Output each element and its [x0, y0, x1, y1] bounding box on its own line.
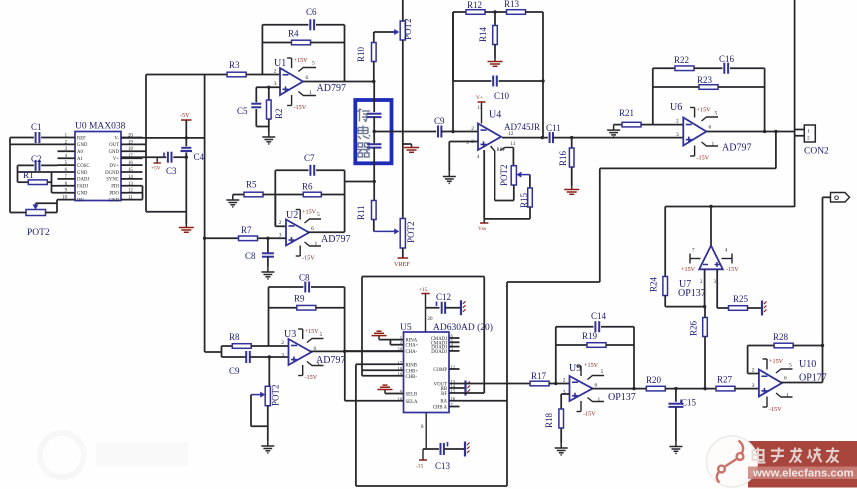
- op-amp U7 OP137 (pointing up): [699, 246, 723, 270]
- capacitor C13: [441, 443, 444, 455]
- wire R8 to U3 pin2: [251, 345, 289, 347]
- wire net: big box top: [362, 276, 484, 278]
- U4 output wire: [502, 137, 548, 139]
- -5V bus vertical: [185, 120, 187, 146]
- U7 pin3 stub down-right: [716, 269, 718, 308]
- ground below C4 (red): [179, 224, 194, 232]
- svg-text:PDI: PDI: [111, 185, 119, 190]
- U1 pin5 stub: [298, 68, 316, 72]
- CON2 pin wires: [795, 129, 805, 131]
- U1 output wire: [303, 81, 374, 83]
- svg-text:5: 5: [789, 363, 792, 369]
- resistor R21 + ground: [607, 125, 620, 137]
- wire U1 fb right vertical: [344, 25, 346, 82]
- svg-text:C8: C8: [299, 273, 310, 283]
- wire R28 fb: [747, 346, 749, 374]
- termination C13: [465, 442, 470, 457]
- svg-text:-15V: -15V: [583, 411, 596, 418]
- capacitor C10: [493, 76, 497, 87]
- wire R24 bottom to pin2 net: [665, 306, 704, 308]
- U10 +15V: [763, 359, 768, 370]
- wire R20 to R27: [665, 388, 717, 390]
- svg-text:POT2: POT2: [406, 221, 416, 243]
- svg-text:R12: R12: [467, 0, 482, 10]
- potentiometer POT2 (top right) wiper: [392, 29, 399, 35]
- svg-text:DADJ: DADJ: [77, 178, 89, 183]
- svg-text:R1: R1: [23, 170, 34, 180]
- U0 pin 12 PDO: [121, 192, 143, 194]
- capacitor C8 below pin3 + ground: [267, 238, 269, 252]
- svg-text:-15: -15: [416, 464, 423, 470]
- wire fb top left vertical: [452, 12, 454, 132]
- wire U3 fb left vertical: [268, 287, 270, 346]
- svg-text:-15V: -15V: [294, 104, 307, 111]
- IC U5 AD630AD: [404, 332, 450, 413]
- watermark www band: [748, 467, 857, 480]
- svg-text:6: 6: [306, 75, 309, 81]
- resistor R6: [303, 192, 321, 197]
- U3 -15V: [298, 365, 303, 376]
- resistor R22: [653, 67, 675, 69]
- svg-text:R13: R13: [504, 0, 520, 9]
- svg-text:+15V: +15V: [697, 107, 712, 114]
- U5 VOUT wire to R17: [449, 383, 530, 385]
- wire pot bottom loop: [513, 185, 515, 201]
- svg-text:COMP: COMP: [433, 368, 447, 373]
- CHA- wire from U3 out: [345, 350, 404, 352]
- U7 +15V (pin7): [690, 254, 701, 264]
- svg-text:13: 13: [128, 182, 133, 187]
- wire node to U2 pin2: [274, 195, 276, 227]
- svg-text:U4: U4: [489, 110, 501, 121]
- U6 pin1 stub: [702, 142, 719, 146]
- resistor R11: [372, 201, 377, 220]
- resistor R23: [653, 86, 699, 88]
- wire POT2 left: [10, 212, 26, 214]
- svg-text:R16: R16: [558, 150, 568, 166]
- svg-text:U5: U5: [400, 323, 412, 333]
- svg-text:GND: GND: [77, 171, 88, 176]
- C12 rail: [421, 293, 429, 295]
- sensor equivalent box (bold blue): [355, 100, 391, 163]
- RINB wire + vertical: [356, 363, 404, 365]
- U0 pin 6 GND: [58, 171, 76, 173]
- wire R8 input jog: [221, 346, 223, 357]
- svg-text:C10: C10: [494, 91, 510, 101]
- wire pin20 net: [121, 137, 205, 139]
- svg-text:COSC: COSC: [77, 164, 90, 169]
- wire C2 row: [18, 164, 34, 166]
- capacitor C6: [262, 24, 308, 26]
- svg-text:R15: R15: [519, 192, 529, 208]
- svg-text:CHB A: CHB A: [433, 406, 448, 411]
- capacitor C9 (U4 input): [438, 126, 441, 138]
- U0 pin 14 SYNC: [121, 178, 143, 180]
- svg-text:C5: C5: [237, 106, 248, 116]
- svg-text:R4: R4: [288, 29, 299, 39]
- capacitor C7: [275, 169, 308, 171]
- junction fb left: [451, 130, 454, 133]
- svg-text:U1: U1: [274, 58, 286, 69]
- capacitor C1: [36, 132, 40, 143]
- svg-text:5: 5: [601, 369, 604, 375]
- svg-text:REF: REF: [77, 136, 86, 141]
- U2 pin5 stub: [305, 219, 322, 223]
- U1 +15V: [287, 58, 292, 68]
- wire pin6 row: [18, 171, 58, 173]
- wire U6 fb right vertical: [764, 68, 766, 131]
- svg-text:+15V: +15V: [584, 362, 599, 369]
- U9 -15V: [577, 401, 582, 412]
- watermark circle logo: [707, 436, 758, 487]
- svg-text:AD630AD (20): AD630AD (20): [433, 322, 493, 333]
- svg-text:U0 MAX038: U0 MAX038: [75, 122, 126, 132]
- U3 +15V: [298, 329, 303, 339]
- U10 -15V: [763, 397, 768, 408]
- U0 pin 20 V-: [121, 137, 143, 139]
- svg-text:POT2: POT2: [403, 18, 413, 40]
- wire R10 top to POT2: [374, 31, 395, 33]
- wire pin10 jog: [36, 202, 58, 204]
- op-amp U9 OP137: [570, 376, 593, 401]
- U5 RA wire: [449, 400, 507, 402]
- CHB-: [362, 375, 404, 377]
- U7 -15V (pin4): [722, 254, 733, 264]
- U0 pin 13 PDI: [121, 185, 143, 187]
- svg-text:V-: V-: [114, 136, 119, 141]
- svg-text:-15V: -15V: [697, 155, 710, 162]
- bus to lower stages x=204.6: [204, 75, 206, 353]
- svg-text:11: 11: [128, 196, 133, 201]
- svg-text:-15V: -15V: [726, 266, 739, 273]
- capacitor C8 (U3 fb): [269, 286, 304, 288]
- op-amp U1 AD797: [280, 68, 303, 95]
- U0 pin 10 IIN: [58, 199, 76, 201]
- capacitor C11: [550, 132, 553, 143]
- U9 +15V: [577, 366, 582, 376]
- svg-text:12: 12: [508, 131, 514, 137]
- svg-text:14: 14: [128, 175, 133, 180]
- svg-text:C7: C7: [304, 153, 315, 163]
- SELB + inverted ground: [385, 393, 404, 395]
- resistor R16 + ground: [571, 138, 573, 148]
- ground U4 pin3: [443, 171, 456, 183]
- junction pin20/C4 bus: [185, 136, 188, 139]
- svg-text:16: 16: [128, 161, 133, 166]
- ground R16 (red): [564, 186, 579, 194]
- U9 fb right vertical: [633, 327, 635, 389]
- svg-text:C15: C15: [681, 398, 697, 408]
- svg-text:10: 10: [62, 196, 67, 201]
- svg-text:GND: GND: [77, 143, 88, 148]
- U0 pin 17 V+: [121, 157, 143, 159]
- ground C5/R2: [262, 132, 275, 144]
- svg-text:2: 2: [807, 136, 810, 142]
- svg-text:O: O: [834, 195, 839, 202]
- power +5V tick: [156, 157, 158, 163]
- svg-text:R21: R21: [619, 108, 634, 118]
- wire U3 fb right vertical: [344, 287, 346, 351]
- U0 pin 1 REF: [58, 137, 76, 139]
- U9 pin5 stub: [588, 376, 605, 380]
- svg-text:18: 18: [128, 147, 133, 152]
- resistor R28: [774, 343, 793, 348]
- svg-text:DV+: DV+: [109, 164, 119, 169]
- svg-text:3: 3: [281, 353, 284, 359]
- ground U3 pot: [261, 441, 274, 453]
- U2 pin1 stub: [305, 242, 322, 246]
- U6 -15V: [690, 146, 695, 157]
- svg-text:R23: R23: [697, 75, 713, 85]
- op-amp U2 AD797: [286, 220, 309, 246]
- junction R12/R13/R14: [493, 10, 496, 13]
- U0 pin 9 GND: [58, 192, 76, 194]
- wire fb right vertical: [542, 12, 544, 138]
- svg-text:Vss: Vss: [478, 226, 486, 232]
- resistor R9: [269, 307, 298, 309]
- svg-text:VREF: VREF: [394, 261, 410, 268]
- U3 output wire: [310, 350, 404, 352]
- svg-text:C1: C1: [31, 122, 42, 132]
- svg-text:1: 1: [786, 393, 789, 399]
- resistor R7: [205, 237, 239, 239]
- svg-text:3: 3: [752, 383, 755, 389]
- svg-text:2: 2: [274, 69, 277, 75]
- U5 top pin stub: [425, 308, 427, 332]
- U0 pin 5 COSC: [58, 164, 76, 166]
- resistor R20: [646, 386, 665, 391]
- svg-text:U2: U2: [286, 210, 298, 221]
- svg-text:R3: R3: [229, 60, 240, 70]
- resistor R4: [262, 42, 291, 44]
- svg-text:3: 3: [274, 81, 277, 87]
- ground below R14 (red): [488, 58, 503, 66]
- svg-text:+5V: +5V: [151, 166, 161, 172]
- svg-text:C13: C13: [435, 461, 451, 471]
- connector CON2: [804, 125, 815, 142]
- U0 pin 4 A1: [58, 157, 76, 159]
- svg-text:R18: R18: [544, 412, 554, 428]
- U0 pin 2 GND: [58, 143, 76, 145]
- SELA: [345, 400, 404, 402]
- watermark red box elecfans: [748, 441, 857, 488]
- wire fb bottom: [453, 80, 491, 82]
- svg-text:R7: R7: [241, 225, 252, 235]
- svg-text:C9: C9: [434, 116, 445, 126]
- resistor R12: [453, 11, 466, 13]
- svg-text:FADJ: FADJ: [77, 185, 88, 190]
- sensor internal capacitor bottom: [373, 117, 375, 143]
- wire U2 fb left vertical: [274, 170, 276, 226]
- svg-text:RF: RF: [441, 392, 447, 397]
- svg-text:2: 2: [752, 368, 755, 374]
- potentiometer POT2 (U4) body: [511, 166, 516, 185]
- U4 pin3 wire to ground: [449, 141, 478, 143]
- capacitor C9 (U3 input): [222, 356, 247, 358]
- U3 pin5 stub: [307, 339, 324, 343]
- wire R7 to pin3: [258, 237, 287, 239]
- potentiometer POT2 (U0) body: [26, 210, 46, 216]
- U2 -15V: [296, 246, 301, 257]
- U2 +15V: [296, 210, 301, 220]
- U7 pin2 stub down: [704, 269, 706, 306]
- svg-text:R22: R22: [674, 55, 689, 65]
- svg-text:1: 1: [317, 361, 320, 367]
- svg-text:-5V: -5V: [180, 112, 190, 119]
- resistor R17: [530, 381, 549, 386]
- resistor R27: [716, 386, 735, 391]
- wire POT2 right: [46, 212, 58, 214]
- U1 -15V: [287, 95, 292, 106]
- svg-text:5: 5: [320, 332, 323, 338]
- U10 pin2 wire: [748, 373, 759, 375]
- svg-text:SELB: SELB: [406, 393, 418, 398]
- resistor R13: [485, 11, 507, 13]
- svg-text:R25: R25: [733, 294, 749, 304]
- svg-text:OP137: OP137: [678, 288, 706, 299]
- svg-text:3: 3: [676, 132, 679, 138]
- svg-text:5: 5: [317, 212, 320, 218]
- U4 Vcc top: [481, 102, 483, 124]
- wire C1 to pin1: [10, 137, 34, 139]
- svg-text:2: 2: [676, 119, 679, 125]
- svg-text:C8: C8: [245, 251, 256, 261]
- right bus vertical (top): [794, 0, 796, 207]
- svg-text:R2: R2: [274, 108, 284, 119]
- wire C2-R1 vertical: [17, 165, 19, 182]
- wire bottom jog to -5V ground: [146, 211, 186, 213]
- svg-text:A0: A0: [77, 150, 83, 155]
- wire R6 right: [321, 194, 344, 196]
- svg-text:CON2: CON2: [804, 147, 829, 157]
- wire to pin9: [52, 192, 58, 194]
- potentiometer POT2 (top) body: [400, 21, 405, 40]
- svg-text:13: 13: [477, 106, 483, 111]
- sensor label 传感器 (vertical CJK approximated): [357, 109, 370, 122]
- svg-text:CHA+: CHA+: [406, 344, 419, 349]
- right bus x=402.8 top: [402, 0, 404, 21]
- svg-text:+15V: +15V: [305, 328, 320, 335]
- resistor R10: [373, 32, 375, 33]
- CHB+: [362, 369, 404, 371]
- svg-text:POT2: POT2: [27, 228, 50, 238]
- potentiometer POT2 (mid right) body: [400, 219, 405, 249]
- svg-text:C3: C3: [166, 166, 177, 176]
- svg-text:+15: +15: [419, 287, 428, 293]
- U9 fb box left vertical: [555, 327, 557, 384]
- svg-text:15: 15: [128, 168, 133, 173]
- svg-text:AD797: AD797: [317, 83, 346, 94]
- svg-text:6: 6: [595, 383, 598, 389]
- U6 pin5 stub: [702, 117, 719, 121]
- op-amp U6 AD797: [683, 118, 706, 146]
- wire C11 to U6: [553, 137, 683, 139]
- sensor internal capacitor top: [373, 82, 375, 113]
- svg-text:RINB: RINB: [406, 363, 417, 368]
- svg-text:2: 2: [279, 220, 282, 226]
- svg-text:REF: REF: [497, 148, 506, 153]
- svg-text:5: 5: [312, 61, 315, 67]
- svg-text:1: 1: [598, 397, 601, 403]
- junction sensor mid: [373, 130, 376, 133]
- svg-text:AD797: AD797: [722, 143, 751, 154]
- resistor R8: [232, 344, 251, 349]
- svg-text:19: 19: [128, 140, 133, 145]
- svg-text:+15V: +15V: [681, 266, 696, 273]
- svg-text:GND: GND: [77, 192, 88, 197]
- svg-text:R6: R6: [302, 182, 313, 192]
- svg-text:1: 1: [807, 129, 810, 135]
- U3 pin1 stub: [307, 362, 324, 366]
- VREF supply below POT2: [402, 248, 404, 258]
- svg-text:U3: U3: [284, 329, 296, 340]
- svg-text:C12: C12: [436, 292, 451, 302]
- U6 output wire: [707, 131, 795, 133]
- wire left bus: [9, 138, 11, 213]
- svg-text:SYNC: SYNC: [106, 178, 119, 183]
- U9 pin1 stub: [588, 398, 605, 402]
- svg-text:AD797: AD797: [321, 234, 350, 245]
- svg-text:+15V: +15V: [769, 358, 784, 365]
- wire C9 to U4 pin2: [441, 131, 478, 133]
- wire R5-R6 node: [263, 194, 303, 196]
- svg-text:www.elecfans.com: www.elecfans.com: [752, 468, 854, 480]
- U7 output vertical: [710, 207, 712, 246]
- resistor R3: [227, 72, 246, 77]
- wire R17 to U9 pin2: [549, 383, 570, 385]
- svg-text:-15V: -15V: [305, 374, 318, 381]
- U1 pin1 stub: [298, 92, 316, 96]
- wire R27 to U10: [734, 388, 759, 390]
- potentiometer POT2 (U3) wiper loop: [268, 357, 270, 386]
- IC U0 MAX038: [75, 132, 121, 201]
- potentiometer POT2 (U0 FADJ) wiper arrow: [33, 203, 39, 209]
- wire pin10: [56, 199, 59, 201]
- op-amp U3 AD797: [289, 339, 312, 365]
- svg-text:3: 3: [471, 139, 474, 145]
- svg-text:SELA: SELA: [406, 400, 419, 405]
- U4 pin11 stub: [501, 147, 514, 150]
- capacitor C15: [675, 389, 677, 402]
- wire U7 output net: [665, 206, 794, 208]
- svg-text:R20: R20: [646, 375, 662, 385]
- wire R3 to U1 pin2: [246, 74, 280, 76]
- svg-text:C14: C14: [591, 311, 607, 321]
- long vertical right of U5: [506, 282, 508, 486]
- U5 RB termination: [449, 387, 465, 389]
- U0 pin 8 FADJ: [58, 185, 76, 187]
- U10 pin5 stub: [776, 369, 793, 373]
- resistor R1: [18, 181, 29, 183]
- svg-text:2: 2: [471, 126, 474, 132]
- svg-text:5: 5: [466, 140, 469, 146]
- svg-text:+15V: +15V: [302, 209, 317, 216]
- svg-text:PDO: PDO: [109, 192, 119, 197]
- wire U1 fb left vertical: [261, 25, 263, 75]
- svg-text:11: 11: [511, 142, 516, 147]
- junction U2 fb to sensor: [373, 180, 376, 183]
- svg-text:R10: R10: [356, 46, 366, 62]
- svg-text:CHB-: CHB-: [406, 375, 418, 380]
- resistor R26: [703, 318, 708, 337]
- svg-text:U10: U10: [799, 359, 816, 370]
- U10 output wire: [781, 382, 823, 384]
- wire R21 to pin2 vertical: [641, 124, 653, 126]
- svg-text:20: 20: [428, 317, 434, 322]
- svg-text:A1: A1: [77, 157, 83, 162]
- resistor R5 + ground: [226, 195, 239, 207]
- red ground right of sensor: [403, 143, 412, 145]
